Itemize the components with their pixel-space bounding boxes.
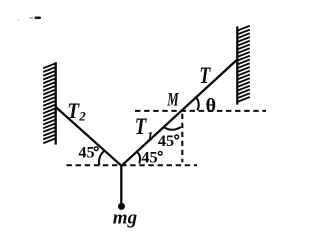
svg-text:mg: mg (113, 208, 137, 229)
right wall hatching (237, 26, 250, 102)
svg-text:T: T (135, 114, 147, 139)
svg-text:45: 45 (158, 131, 174, 150)
vertical dashed line below M (181, 114, 183, 162)
stray speck top-left (18, 17, 41, 21)
svg-text:M: M (167, 89, 180, 110)
svg-text:T: T (199, 63, 211, 88)
arc of left 45 angle at junction (99, 150, 105, 165)
string T1/T from junction through M to right wall (122, 60, 238, 166)
string T2 from left wall to junction (56, 107, 122, 166)
dashed horizontal line through junction (67, 164, 198, 166)
vertical string to mass (120, 166, 122, 204)
dashed horizontal line through M (135, 110, 266, 112)
arc of right 45 angle at junction (136, 152, 140, 164)
svg-text:2: 2 (78, 108, 86, 123)
svg-text:45: 45 (141, 148, 157, 167)
mass dot (118, 203, 125, 210)
left wall hatching (43, 63, 56, 143)
svg-text:45: 45 (78, 143, 94, 162)
svg-text:1: 1 (147, 128, 154, 143)
right wall line (236, 26, 238, 104)
svg-text:θ: θ (206, 95, 216, 117)
left wall line (55, 62, 57, 144)
arc of 45 angle below M (164, 127, 181, 130)
arc of theta angle at M (196, 98, 198, 111)
